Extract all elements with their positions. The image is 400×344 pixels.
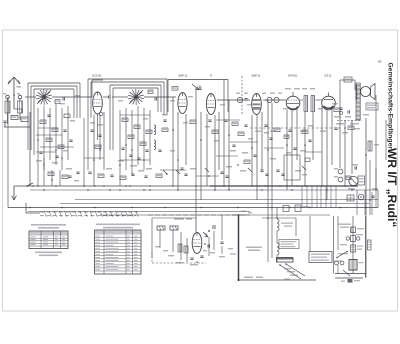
terminal A [6, 95, 10, 99]
junction dots 3 [29, 207, 367, 209]
label 2x25AF [174, 218, 192, 220]
cable dashes [40, 211, 138, 217]
label EBF11 [179, 74, 188, 78]
grid cap [103, 95, 110, 98]
table 1 footer [35, 252, 62, 257]
tube V2 [178, 93, 187, 114]
trimmer cap t1 [237, 97, 242, 102]
capacitor C10 [244, 99, 247, 101]
component cluster RF [36, 104, 75, 186]
wire [385, 120, 387, 160]
wire [177, 112, 179, 190]
wire box [340, 80, 355, 100]
wire loop [88, 79, 167, 118]
wire [357, 190, 372, 215]
trimmer C3 [55, 100, 60, 104]
label EBF11 b [210, 74, 213, 78]
diode arrow [203, 230, 210, 237]
trimmer C6 [148, 90, 153, 94]
wire [195, 88, 197, 215]
small labels scatter [75, 95, 323, 109]
tube V4 [252, 94, 262, 115]
wire [103, 112, 105, 170]
wire [337, 216, 339, 250]
ground arrow [12, 186, 17, 200]
wire loop [34, 89, 74, 155]
label 1.5m [17, 86, 22, 88]
wire [251, 115, 253, 186]
note box [309, 252, 332, 263]
junction dots [37, 185, 346, 187]
junction dots 2 [43, 189, 377, 191]
hatched resistor [368, 240, 372, 250]
wire [8, 99, 21, 101]
fuse F1 [348, 279, 361, 283]
wire [92, 80, 103, 97]
component cluster oscillator [118, 106, 162, 186]
wire [152, 218, 196, 258]
variable capacitor (tuning gang 2) [128, 89, 144, 105]
wire [172, 97, 174, 186]
wire [304, 112, 306, 186]
mains line 2 [335, 277, 363, 279]
label ECH11 [92, 74, 102, 78]
screen box [284, 155, 300, 180]
svg-text:EBF11: EBF11 [252, 74, 261, 78]
svg-text:EZ11: EZ11 [325, 74, 332, 78]
wire [99, 115, 101, 161]
wire [112, 96, 176, 98]
wire [261, 112, 263, 170]
wire [14, 109, 22, 113]
table 1 title [31, 224, 66, 229]
connector circle [358, 194, 364, 200]
component b [346, 234, 363, 242]
wire [271, 103, 273, 218]
wire [352, 216, 354, 274]
junction t [232, 211, 252, 216]
title text "Gemeinschafts-Empfänger" [387, 63, 394, 150]
wire [333, 216, 335, 274]
label Erdleitung [244, 277, 263, 279]
component cluster IF1 [162, 114, 219, 170]
mains line 1 [335, 273, 366, 275]
wire [206, 114, 208, 186]
arrow component [192, 84, 199, 90]
text note "Beim Netzempfaenger" [246, 247, 262, 252]
bus link2 [377, 190, 379, 208]
tube V5 [286, 92, 300, 110]
wire [326, 110, 328, 200]
wire [160, 170, 219, 176]
svg-text:EBF11: EBF11 [179, 74, 188, 78]
wire [38, 115, 150, 128]
speaker/jack circle [348, 176, 358, 189]
wire [214, 115, 216, 190]
wire corner [26, 203, 40, 213]
wire [217, 99, 250, 101]
dashed partition right [250, 127, 340, 129]
capacitor C7 [155, 97, 157, 100]
resistor R21 [170, 226, 178, 230]
bus wire (ground) [14, 185, 358, 187]
component cluster AF [264, 125, 313, 160]
label column [284, 268, 298, 280]
wire [351, 120, 353, 174]
bus wire [75, 199, 378, 201]
tube V3 [206, 94, 215, 115]
wire [302, 186, 336, 208]
IF transformer T2 [304, 96, 315, 112]
box component [358, 176, 365, 185]
wire diag [338, 265, 350, 276]
label perm.dyn [366, 103, 378, 110]
wire [291, 110, 293, 186]
mid components row [88, 158, 310, 191]
wire [97, 115, 99, 141]
bus wire [60, 203, 370, 205]
resistor column right [365, 141, 379, 156]
switch contacts [279, 263, 305, 279]
label B (top) [378, 61, 382, 63]
wire [228, 100, 230, 190]
component cluster under tube [155, 231, 215, 265]
text block left [279, 223, 299, 249]
label 50 [236, 93, 248, 94]
tube V6 [322, 93, 336, 110]
table 2 title [96, 224, 140, 229]
svg-text:ECH11: ECH11 [92, 74, 102, 78]
mains wire (thick) [238, 215, 240, 280]
capacitor C30 [213, 225, 215, 229]
wire [239, 279, 317, 281]
wire [4, 112, 30, 186]
wire [369, 160, 371, 215]
connector circles [335, 261, 344, 265]
small box [347, 195, 354, 201]
entbrummer (poti bar) [277, 258, 294, 263]
label box [344, 77, 352, 82]
antenna coil L1 [5, 101, 10, 113]
wire [264, 148, 322, 152]
wire stub [228, 248, 236, 254]
label 4.5B [334, 244, 348, 262]
label EZ11 [325, 74, 332, 78]
wire [25, 96, 92, 98]
wire [36, 135, 74, 152]
wire [375, 95, 377, 190]
resistor R20 [157, 226, 165, 230]
wire [296, 106, 298, 160]
wire loop [31, 86, 77, 150]
choke L11 [277, 231, 279, 262]
wire box [168, 80, 228, 113]
wire [267, 100, 269, 218]
capacitor C4 [60, 97, 65, 104]
wire [339, 100, 341, 168]
terminal E [18, 95, 22, 99]
dashed enclosure [152, 252, 206, 263]
wire [312, 112, 314, 160]
antenna symbol [8, 77, 20, 109]
label EFM11 [288, 74, 298, 78]
wave trap cluster [44, 158, 80, 186]
label A/E [3, 93, 20, 94]
switch diagonal [336, 251, 348, 259]
component [369, 188, 378, 201]
component cluster mid right [334, 164, 358, 182]
bus link [7, 97, 9, 208]
svg-text:EFM11: EFM11 [288, 74, 298, 78]
svg-text:WR I/T „Rudi“: WR I/T „Rudi“ [385, 148, 399, 227]
wire [195, 215, 197, 232]
wire [219, 215, 225, 257]
component cluster detector [224, 120, 256, 172]
capacitor C9 [198, 85, 201, 90]
wire loop [28, 83, 80, 150]
table: tube socket data [29, 231, 68, 249]
component cluster [334, 110, 351, 117]
wire [262, 217, 296, 219]
bus components [283, 205, 309, 212]
label row [336, 114, 369, 125]
wire [185, 114, 187, 165]
svg-text:Gemeinschafts-Empfänger: Gemeinschafts-Empfänger [387, 63, 394, 150]
small labels row mid [255, 131, 326, 132]
wire [256, 115, 258, 200]
selector box [349, 260, 364, 271]
label 220 [341, 281, 345, 282]
resistor chain a [351, 227, 365, 233]
bus wire [100, 214, 330, 216]
label EBF11 c [252, 74, 261, 78]
trimmer cap t3 [274, 97, 279, 102]
wire [365, 118, 367, 277]
trimmer cap t2 [267, 97, 272, 102]
component cluster below V1 [84, 112, 103, 186]
wire [365, 216, 367, 278]
wire [331, 106, 333, 165]
variable capacitor (tuning gang 1) [36, 89, 52, 105]
output transformer T3 [355, 83, 360, 120]
resistor R5 [172, 87, 178, 91]
wire [300, 99, 322, 101]
input coil L2 [18, 101, 23, 113]
capacitor C1 [3, 121, 6, 127]
resistor R2 [21, 117, 28, 122]
wire [344, 120, 346, 186]
wire [160, 230, 173, 252]
wire [216, 120, 258, 156]
speaker LS [361, 84, 376, 100]
table: coil winding data [95, 230, 142, 274]
dashed line [337, 120, 362, 122]
bus wire [28, 211, 250, 213]
tube V7 [192, 233, 202, 254]
wire [263, 99, 286, 101]
wire loop [110, 85, 161, 150]
title text "WR I/T Rudi" [385, 148, 399, 227]
wire [84, 158, 150, 160]
wire [286, 110, 288, 190]
component cluster top right [332, 103, 360, 134]
bus wire (AVC) [30, 189, 378, 191]
choke L10 [277, 208, 279, 232]
wire loop [91, 82, 164, 118]
label row [262, 93, 282, 94]
wire [93, 115, 95, 187]
wire [148, 214, 250, 216]
text block mains note [338, 224, 351, 228]
junction [237, 279, 239, 281]
resistor R1 [11, 116, 18, 120]
wire [200, 112, 202, 200]
bus wire (B+) [8, 207, 378, 209]
wire [8, 113, 21, 124]
wire [296, 216, 310, 252]
component c [351, 245, 364, 252]
wire [218, 112, 220, 170]
wire [268, 218, 272, 262]
shield partition [241, 76, 243, 115]
label anode [285, 88, 315, 89]
tube V1 [93, 92, 103, 114]
wire [223, 80, 225, 187]
wire [375, 168, 377, 208]
switch S1 [26, 183, 34, 187]
capacitor C12 [339, 108, 342, 115]
wire [321, 106, 323, 186]
wire loop [113, 88, 158, 150]
